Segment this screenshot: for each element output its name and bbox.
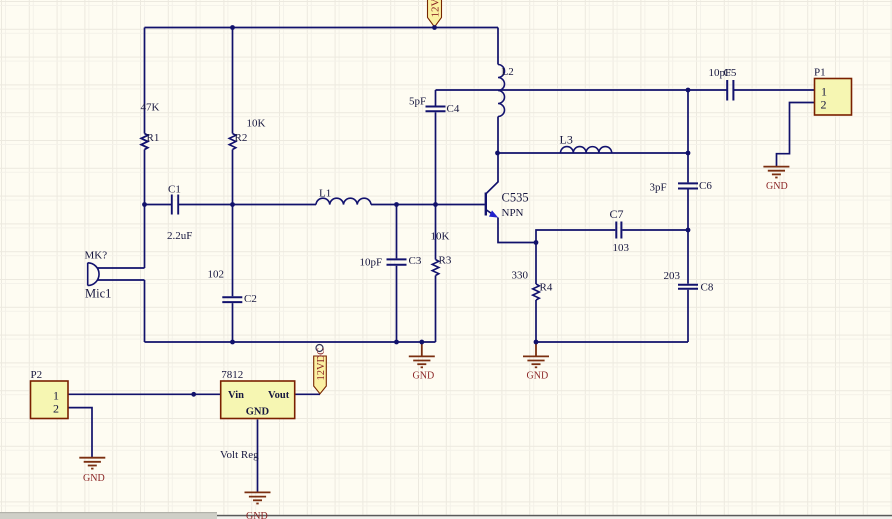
svg-text:GND: GND <box>413 370 435 381</box>
svg-text:7812: 7812 <box>221 369 243 381</box>
wire R2 column <box>232 28 234 343</box>
svg-text:NPN: NPN <box>502 207 524 219</box>
power port 12V top <box>428 0 442 27</box>
ground under R4 <box>523 343 549 382</box>
svg-text:C3: C3 <box>409 255 422 267</box>
junction node C1 left <box>142 202 147 207</box>
wire mic bottom pin <box>97 279 145 281</box>
wire bottom rail <box>145 341 436 343</box>
connector P2 <box>31 369 69 419</box>
svg-text:C7: C7 <box>610 207 624 221</box>
svg-text:102: 102 <box>208 269 225 281</box>
junction node top rail R2 <box>230 25 235 30</box>
svg-text:Volt Reg: Volt Reg <box>220 449 259 461</box>
junction node L3 left <box>495 151 500 156</box>
resistor R4 <box>512 270 553 301</box>
wire right column <box>687 90 689 342</box>
wire left column lower <box>144 280 146 342</box>
inductor L2 <box>498 65 514 117</box>
svg-text:GND: GND <box>766 181 788 192</box>
wire L3 row <box>498 152 689 154</box>
wire C7 link <box>536 230 688 243</box>
capacitor C4 <box>409 96 460 116</box>
ground under P1 <box>763 167 789 178</box>
wire emitter column <box>498 218 536 243</box>
svg-text:GND: GND <box>246 511 268 519</box>
svg-text:5pF: 5pF <box>409 96 426 108</box>
svg-text:GND: GND <box>83 473 105 484</box>
wire P2 pin1 to regulator <box>68 393 220 395</box>
capacitor C3 <box>360 255 422 269</box>
junction node C7 right <box>686 228 691 233</box>
wire P1 pin2 to ground <box>777 103 815 167</box>
junction node C2 bottom <box>230 340 235 345</box>
ground under regulator <box>245 492 271 503</box>
inductor L3 <box>560 133 612 154</box>
wire C1 row right <box>178 204 232 206</box>
svg-text:L1: L1 <box>319 188 331 200</box>
capacitor C8 <box>664 270 714 294</box>
svg-text:C535: C535 <box>502 191 529 205</box>
svg-text:203: 203 <box>664 270 681 282</box>
svg-text:C8: C8 <box>701 282 714 294</box>
svg-text:GND: GND <box>246 407 270 418</box>
svg-text:R4: R4 <box>540 282 553 294</box>
svg-text:2.2uF: 2.2uF <box>167 230 192 242</box>
svg-text:2: 2 <box>821 98 827 112</box>
svg-text:R3: R3 <box>439 255 452 267</box>
window edge bottom right <box>217 515 892 519</box>
wire collector column <box>497 28 499 183</box>
wire left column <box>144 28 146 269</box>
svg-text:Vin: Vin <box>228 390 244 401</box>
wire R4 column <box>535 243 537 343</box>
svg-text:P1: P1 <box>814 67 826 79</box>
capacitor C7 <box>610 207 630 254</box>
svg-text:2: 2 <box>53 401 59 415</box>
wire regulator Vout to 12VDC port <box>295 393 321 395</box>
ground mid bottom rail <box>409 343 435 381</box>
capacitor C5 <box>709 67 737 101</box>
power port 12VDC bottom <box>314 345 327 394</box>
svg-text:1: 1 <box>821 84 827 98</box>
svg-text:C5: C5 <box>724 67 737 79</box>
capacitor C6 <box>650 180 713 194</box>
junction node R4 bottom <box>534 340 539 345</box>
svg-text:P2: P2 <box>31 369 43 381</box>
wire base row left <box>233 204 317 206</box>
junction node C3 top <box>394 202 399 207</box>
wire regulator GND pin <box>257 420 259 493</box>
svg-text:12VDC: 12VDC <box>316 348 327 381</box>
svg-text:R1: R1 <box>147 132 160 144</box>
svg-text:L2: L2 <box>502 66 514 78</box>
svg-text:L3: L3 <box>560 133 573 147</box>
svg-text:MK?: MK? <box>85 250 108 262</box>
resistor R3 <box>431 231 452 276</box>
svg-text:1: 1 <box>53 388 59 402</box>
wire C4-R3 column <box>435 90 437 342</box>
resistor R2 <box>229 118 265 150</box>
junction node C3 bottom <box>394 340 399 345</box>
svg-text:10pF: 10pF <box>360 257 383 269</box>
junction node ground stub <box>419 340 424 345</box>
svg-text:330: 330 <box>512 270 529 282</box>
svg-text:GND: GND <box>527 371 549 382</box>
wire top rail <box>145 27 499 29</box>
svg-text:10K: 10K <box>247 118 266 130</box>
connector P1 <box>814 67 852 116</box>
capacitor C2 <box>208 269 257 306</box>
junction node C1 right <box>230 202 235 207</box>
wire P2 pin2 to ground <box>68 408 92 458</box>
svg-text:C4: C4 <box>447 103 460 115</box>
capacitor C1 <box>167 184 192 243</box>
svg-text:Vout: Vout <box>268 390 290 401</box>
ground under P2 <box>79 458 105 469</box>
svg-text:C6: C6 <box>699 180 712 192</box>
window edge bottom left <box>0 513 217 519</box>
wire bottom right rail <box>536 341 688 343</box>
svg-text:12V: 12V <box>430 0 442 18</box>
svg-text:103: 103 <box>613 242 630 254</box>
wire base row right <box>371 204 485 206</box>
wire C3 column <box>396 205 398 343</box>
microphone Mic1 <box>85 250 112 301</box>
junction node base <box>433 202 438 207</box>
svg-text:R2: R2 <box>235 132 248 144</box>
svg-text:C1: C1 <box>168 184 181 196</box>
junction node L3 right <box>686 151 691 156</box>
junction node P2 wire <box>191 392 196 397</box>
regulator U1 7812 <box>220 369 295 461</box>
transistor Q1 C535 NPN <box>486 182 529 220</box>
resistor R1 <box>141 102 160 150</box>
wire mic top pin <box>97 267 145 269</box>
junction node rail2 right <box>686 88 691 93</box>
junction node emitter <box>534 240 539 245</box>
junction node 12V port <box>432 25 437 30</box>
wire rail2 C4 to C5 <box>436 89 728 91</box>
svg-text:3pF: 3pF <box>650 182 667 194</box>
wire C1 row left <box>145 204 172 206</box>
inductor L1 <box>316 188 371 205</box>
svg-text:C2: C2 <box>244 293 257 305</box>
svg-text:10K: 10K <box>431 231 450 243</box>
wire C5 to P1 pin1 <box>733 89 814 91</box>
svg-text:Mic1: Mic1 <box>85 287 111 301</box>
svg-text:47K: 47K <box>141 102 160 114</box>
